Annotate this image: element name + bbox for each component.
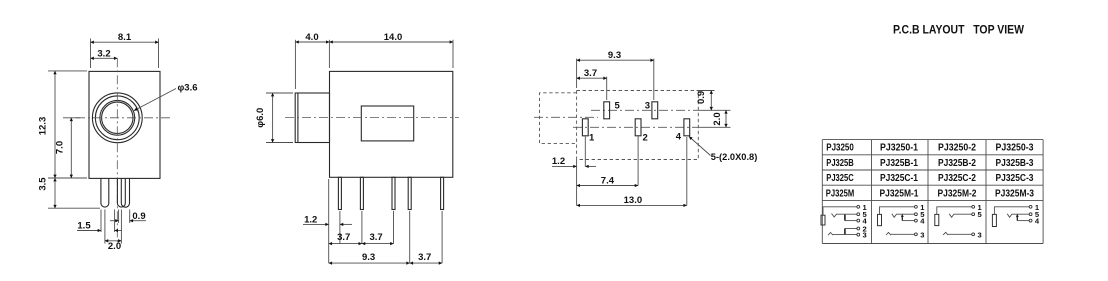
dim 14.0 line bbox=[329, 41, 453, 43]
schematic PJ325M wire to pin2 bbox=[845, 228, 857, 230]
svg-text:φ3.6: φ3.6 bbox=[178, 83, 198, 94]
dim 12.3 line bbox=[54, 71, 56, 178]
schematic PJ325M-2 pin3 bbox=[972, 233, 975, 236]
side pin2 extension line bbox=[361, 211, 363, 244]
top pad1 extension line bbox=[584, 137, 586, 167]
schematic PJ325M-2 wire to pin1 bbox=[937, 207, 972, 215]
svg-text:PJ325C-2: PJ325C-2 bbox=[938, 172, 976, 184]
schematic PJ325M-1 ring switch bbox=[886, 232, 891, 235]
svg-text:3: 3 bbox=[645, 101, 650, 112]
dim 9.3 top line bbox=[577, 59, 654, 61]
svg-text:3.2: 3.2 bbox=[97, 48, 110, 59]
dim 3.7 a line bbox=[329, 243, 362, 245]
dim 0.9 arrows bbox=[110, 220, 119, 222]
side pin5 extension line bbox=[441, 211, 443, 263]
side view barrel bbox=[295, 93, 329, 143]
svg-text:3.5: 3.5 bbox=[38, 177, 49, 191]
dim 1.2 top arrows bbox=[552, 165, 577, 167]
top view body dashed outline bbox=[577, 91, 699, 160]
front view jack barrel circle outer bbox=[92, 93, 142, 143]
schematic PJ325M pin2 bbox=[857, 227, 860, 230]
schematic PJ325M-2 pin5 bbox=[972, 213, 975, 216]
schematic PJ325M-1 pin4 bbox=[915, 219, 918, 222]
side view pin 3 bbox=[392, 177, 395, 209]
svg-text:3: 3 bbox=[863, 231, 867, 240]
top view upper row centerline extension bbox=[700, 109, 731, 111]
label phi3.6 leader bbox=[134, 89, 176, 111]
svg-text:7.0: 7.0 bbox=[55, 141, 66, 154]
top view pad 4 bbox=[684, 119, 690, 136]
dim 8.1 extension lines bbox=[90, 39, 92, 69]
svg-text:0.9: 0.9 bbox=[132, 211, 145, 222]
svg-text:3.7: 3.7 bbox=[337, 232, 350, 243]
table row2 texts bbox=[826, 157, 1033, 169]
svg-text:3.7: 3.7 bbox=[369, 232, 382, 243]
top pad4 extension line bbox=[686, 137, 688, 205]
schematic PJ325M-3 wire to pin4 bbox=[1017, 220, 1029, 222]
dim 3.7 top line bbox=[577, 77, 607, 79]
svg-text:3: 3 bbox=[978, 230, 982, 239]
dim 9.3 line bbox=[329, 262, 410, 264]
dim phi6.0 extension lines bbox=[266, 92, 293, 94]
svg-text:2: 2 bbox=[643, 132, 648, 143]
schematic PJ325M-3 pin5 bbox=[1029, 213, 1032, 216]
front view horizontal centerline bbox=[76, 117, 172, 119]
top view barrel dashed outline bbox=[540, 93, 577, 144]
svg-text:0.9: 0.9 bbox=[696, 91, 707, 104]
dim 0.9 right extension line bbox=[698, 90, 714, 92]
dim 1.5 extension lines bbox=[100, 210, 102, 233]
schematic PJ325M-1 pin5 bbox=[915, 213, 918, 216]
dim 7.4 line bbox=[577, 185, 639, 187]
svg-text:PJ325C: PJ325C bbox=[826, 172, 854, 184]
schematic PJ325M-1 actuator arrow bbox=[901, 216, 903, 221]
side view pin 2 bbox=[360, 177, 363, 209]
table row4 texts bbox=[826, 187, 1034, 199]
dim 8.1 line bbox=[91, 41, 159, 43]
dim 3.7 b line bbox=[362, 243, 394, 245]
svg-text:5: 5 bbox=[615, 101, 621, 112]
svg-text:4.0: 4.0 bbox=[305, 32, 318, 43]
svg-text:PJ3250-2: PJ3250-2 bbox=[938, 142, 976, 154]
svg-text:PJ325B-1: PJ325B-1 bbox=[880, 157, 918, 169]
schematic PJ325M-1 wire to pin4 bbox=[902, 220, 914, 222]
svg-text:13.0: 13.0 bbox=[624, 195, 643, 206]
schematic PJ325M switch bar 2-3 bbox=[844, 229, 846, 235]
dim 2.0 line bbox=[105, 240, 122, 242]
top view pad 2 bbox=[635, 119, 641, 136]
front view jack hole ring3 bbox=[100, 100, 135, 135]
svg-text:14.0: 14.0 bbox=[384, 32, 403, 43]
svg-text:9.3: 9.3 bbox=[608, 50, 621, 61]
svg-text:2.0: 2.0 bbox=[108, 241, 121, 252]
svg-text:PJ325M-1: PJ325M-1 bbox=[880, 187, 919, 199]
dim 12.3 extension lines bbox=[48, 70, 87, 72]
svg-text:5-(2.0X0.8): 5-(2.0X0.8) bbox=[711, 152, 758, 163]
schematic PJ325M-2 tip switch bbox=[949, 214, 954, 218]
dim 4.0 extension lines bbox=[294, 40, 296, 89]
schematic PJ325M wire to pin4 bbox=[845, 220, 857, 222]
svg-text:1.2: 1.2 bbox=[304, 214, 317, 225]
svg-text:φ6.0: φ6.0 bbox=[255, 108, 266, 128]
top dim extension lines bbox=[576, 59, 578, 88]
dim 4.0 line bbox=[295, 41, 329, 43]
dim 1.2 arrows bbox=[303, 223, 329, 225]
svg-text:PJ325B-3: PJ325B-3 bbox=[996, 157, 1034, 169]
top view pad 5 bbox=[604, 102, 610, 119]
svg-text:PJ325C-1: PJ325C-1 bbox=[880, 172, 918, 184]
dim phi6.0 line bbox=[272, 93, 274, 143]
svg-text:7.4: 7.4 bbox=[601, 176, 615, 187]
schematic PJ325M-3 pin1 bbox=[1029, 205, 1032, 208]
schematic PJ325M-3 pin4 bbox=[1029, 219, 1032, 222]
schematic PJ325M pin4 bbox=[857, 219, 860, 222]
svg-text:3: 3 bbox=[920, 230, 924, 239]
svg-text:PJ325B: PJ325B bbox=[826, 157, 854, 169]
schematic PJ325M-3 tip switch bbox=[1007, 214, 1012, 218]
dim 3.7 c line bbox=[410, 262, 442, 264]
schematic PJ325M-1 pin1 bbox=[915, 205, 918, 208]
side body left extension line bbox=[328, 179, 330, 263]
svg-text:4: 4 bbox=[676, 131, 682, 142]
svg-text:8.1: 8.1 bbox=[118, 32, 132, 43]
schematic PJ325M-1 wire to pin1 bbox=[880, 207, 915, 215]
svg-text:1: 1 bbox=[589, 132, 595, 143]
svg-text:12.3: 12.3 bbox=[38, 117, 49, 136]
front view jack hole circle phi3.6 bbox=[102, 102, 133, 133]
side pin4 extension line bbox=[409, 211, 411, 263]
svg-text:PJ3250-1: PJ3250-1 bbox=[880, 142, 918, 154]
svg-text:1.5: 1.5 bbox=[77, 220, 91, 231]
schematic PJ325M-3 wire to pin1 bbox=[994, 207, 1029, 215]
svg-text:PJ325M-2: PJ325M-2 bbox=[938, 187, 977, 199]
svg-text:1.2: 1.2 bbox=[552, 156, 565, 167]
front view pin middle bbox=[117, 178, 125, 207]
svg-text:PJ325M-3: PJ325M-3 bbox=[995, 187, 1034, 199]
dim 2.0 extension lines bbox=[104, 210, 106, 244]
schematic PJ325M-3 actuator arrow bbox=[1016, 216, 1018, 221]
schematic PJ325M-1 pin3 bbox=[915, 233, 918, 236]
side view pin 1 bbox=[338, 177, 341, 209]
table grid bbox=[822, 140, 1043, 244]
top view lower row centerline extension bbox=[700, 126, 731, 128]
svg-text:2.0: 2.0 bbox=[712, 112, 723, 125]
front view vertical centerline bbox=[116, 58, 118, 243]
schematic PJ325M switch bar 5-4 bbox=[844, 215, 846, 221]
schematic PJ325M-1 tip switch bbox=[892, 214, 897, 218]
dim 3.5 extension line bbox=[48, 207, 100, 209]
table row3 texts bbox=[826, 172, 1033, 184]
dim 1.5 arrows bbox=[77, 230, 101, 232]
schematic PJ325M sleeve bbox=[821, 215, 825, 225]
schematic PJ325M pin1 bbox=[857, 205, 860, 208]
svg-text:PJ325C-3: PJ325C-3 bbox=[996, 172, 1034, 184]
side pin3 extension line bbox=[393, 211, 395, 244]
schematic PJ325M tip switch bbox=[832, 214, 837, 218]
front view body bbox=[89, 71, 160, 178]
side view inner recess rect bbox=[361, 106, 413, 141]
table row1 texts bbox=[826, 142, 1033, 154]
dim 3.5 line bbox=[54, 178, 56, 208]
schematic PJ325M-1 sleeve bbox=[878, 214, 882, 225]
svg-text:PJ325B-2: PJ325B-2 bbox=[938, 157, 976, 169]
schematic PJ325M-2 ring switch bbox=[943, 232, 948, 235]
svg-text:9.3: 9.3 bbox=[362, 252, 375, 263]
top view lower row centerline bbox=[573, 126, 700, 128]
schematic PJ325M pin5 bbox=[857, 213, 860, 216]
top view pad 3 bbox=[652, 102, 658, 119]
top pad2 extension line bbox=[637, 137, 639, 186]
top view pad 1 bbox=[582, 119, 588, 136]
top body left lower extension line bbox=[576, 160, 578, 205]
svg-text:PJ3250-3: PJ3250-3 bbox=[996, 142, 1034, 154]
schematic PJ325M wire to pin1 bbox=[823, 207, 857, 215]
front view pin left bbox=[101, 178, 109, 207]
top view barrel centerline bbox=[534, 116, 598, 118]
side view body bbox=[330, 71, 453, 177]
schematic PJ325M-2 sleeve bbox=[935, 214, 939, 225]
svg-text:3.7: 3.7 bbox=[418, 252, 431, 263]
dim 7.0 extension tick bbox=[63, 117, 80, 119]
top view upper row centerline bbox=[591, 109, 700, 111]
schematic PJ325M pin3 bbox=[857, 233, 860, 236]
pad size leader bbox=[689, 137, 711, 156]
dim 13.0 line bbox=[577, 204, 687, 206]
svg-text:PJ325M: PJ325M bbox=[826, 187, 855, 199]
dim 0.9 extension lines bbox=[118, 210, 120, 224]
schematic PJ325M ring switch bbox=[828, 233, 833, 236]
front view pin rear (hidden behind) bbox=[121, 178, 129, 207]
dim 3.2 line bbox=[91, 57, 118, 59]
dim 2.0 right line bbox=[725, 110, 727, 127]
svg-text:3.7: 3.7 bbox=[584, 68, 597, 79]
side view pin 5 bbox=[441, 177, 444, 209]
svg-text:PJ3250: PJ3250 bbox=[826, 142, 854, 154]
side view pin 4 bbox=[408, 177, 411, 209]
schematic PJ325M-3 sleeve bbox=[992, 214, 996, 226]
side view barrel rim line bbox=[297, 93, 299, 143]
side pin1 extension line bbox=[339, 211, 341, 244]
dim 14.0 extension line bbox=[452, 40, 454, 68]
front view jack barrel circle ring2 bbox=[95, 96, 139, 140]
dim 7.0 line bbox=[70, 118, 72, 178]
side view horizontal centerline bbox=[285, 117, 459, 119]
schematic PJ325M-2 pin1 bbox=[972, 205, 975, 208]
svg-text:P.C.B LAYOUT TOP VIEW: P.C.B LAYOUT TOP VIEW bbox=[893, 25, 1024, 37]
dim 0.9 right line bbox=[710, 91, 712, 111]
